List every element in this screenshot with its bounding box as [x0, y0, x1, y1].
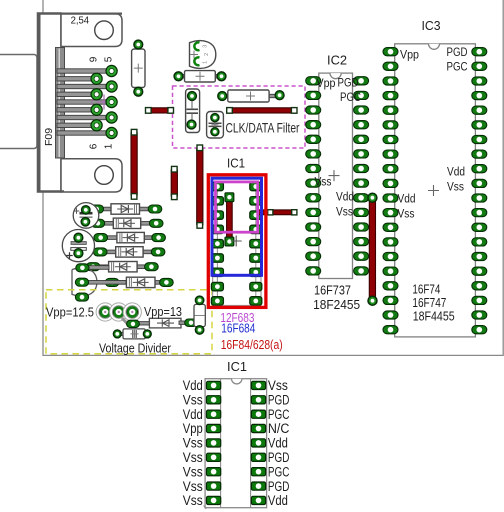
svg-text:Vss: Vss — [183, 450, 203, 465]
svg-text:Vss: Vss — [183, 479, 203, 494]
svg-text:Vpp=13: Vpp=13 — [144, 305, 182, 319]
svg-text:18F2455: 18F2455 — [313, 298, 360, 312]
svg-text:Voltage Divider: Voltage Divider — [99, 341, 172, 356]
svg-text:N/C: N/C — [268, 421, 290, 436]
svg-text:Vss: Vss — [268, 378, 288, 393]
svg-text:Vss: Vss — [398, 209, 415, 221]
svg-text:PGD: PGD — [268, 392, 290, 407]
svg-text:Vss: Vss — [183, 436, 203, 451]
svg-text:Vdd: Vdd — [268, 493, 288, 508]
svg-text:16F737: 16F737 — [314, 284, 351, 298]
svg-text:Vss: Vss — [447, 182, 464, 194]
svg-text:16F684: 16F684 — [221, 320, 255, 335]
svg-text:PGC: PGC — [340, 92, 361, 104]
svg-text:Vdd: Vdd — [336, 192, 354, 204]
svg-text:F09: F09 — [43, 128, 55, 146]
svg-text:PGC: PGC — [447, 62, 468, 74]
svg-text:6: 6 — [89, 143, 100, 149]
svg-text:Vdd: Vdd — [398, 194, 416, 206]
svg-text:Vpp: Vpp — [400, 50, 419, 62]
svg-text:18F4455: 18F4455 — [413, 310, 455, 324]
svg-text:IC2: IC2 — [327, 53, 347, 68]
svg-text:9: 9 — [89, 56, 100, 62]
svg-text:16F747: 16F747 — [412, 296, 446, 310]
svg-text:CLK/DATA Filter: CLK/DATA Filter — [226, 120, 300, 136]
svg-text:16F84/628(a): 16F84/628(a) — [221, 337, 283, 352]
svg-text:2: 2 — [204, 53, 210, 56]
svg-text:1: 1 — [104, 143, 115, 149]
svg-text:1: 1 — [202, 61, 208, 64]
svg-text:Vdd: Vdd — [268, 436, 288, 451]
svg-text:Vss: Vss — [183, 464, 203, 479]
svg-text:Vpp: Vpp — [183, 421, 203, 436]
svg-text:Vpp=12.5: Vpp=12.5 — [46, 305, 94, 320]
svg-text:IC1: IC1 — [227, 157, 245, 171]
svg-text:PGD: PGD — [268, 479, 290, 494]
svg-text:Vdd: Vdd — [183, 378, 203, 393]
svg-text:IC3: IC3 — [422, 18, 441, 33]
svg-text:PGD: PGD — [447, 47, 468, 59]
svg-text:PGD: PGD — [268, 450, 290, 465]
svg-text:Vss: Vss — [183, 493, 203, 508]
svg-text:Vdd: Vdd — [183, 407, 203, 422]
svg-text:Vss: Vss — [315, 177, 332, 189]
svg-text:16F74: 16F74 — [412, 282, 440, 296]
svg-text:Vss: Vss — [183, 392, 203, 407]
svg-text:PGC: PGC — [268, 407, 290, 422]
svg-text:PGD: PGD — [338, 78, 359, 90]
svg-text:IC1: IC1 — [227, 359, 247, 374]
svg-text:Vdd: Vdd — [447, 167, 465, 179]
svg-text:PGC: PGC — [268, 464, 290, 479]
svg-text:Vss: Vss — [336, 207, 353, 219]
svg-text:3: 3 — [202, 45, 208, 48]
svg-text:5: 5 — [104, 56, 115, 62]
svg-text:Vpp: Vpp — [317, 78, 336, 90]
svg-text:2,54: 2,54 — [71, 16, 90, 27]
